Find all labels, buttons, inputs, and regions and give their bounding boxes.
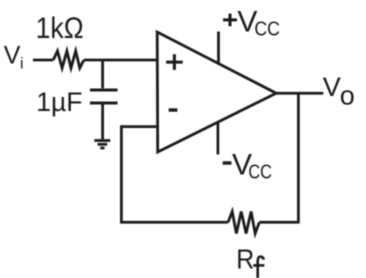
svg-text:o: o [340,81,355,111]
svg-text:V: V [323,72,341,102]
svg-text:CC: CC [254,19,280,41]
svg-text:1µF: 1µF [36,87,82,117]
svg-text:R: R [236,243,254,274]
svg-text:V: V [4,41,21,69]
svg-text:i: i [20,56,24,73]
svg-text:1kΩ: 1kΩ [36,12,84,45]
svg-text:CC: CC [248,161,272,183]
